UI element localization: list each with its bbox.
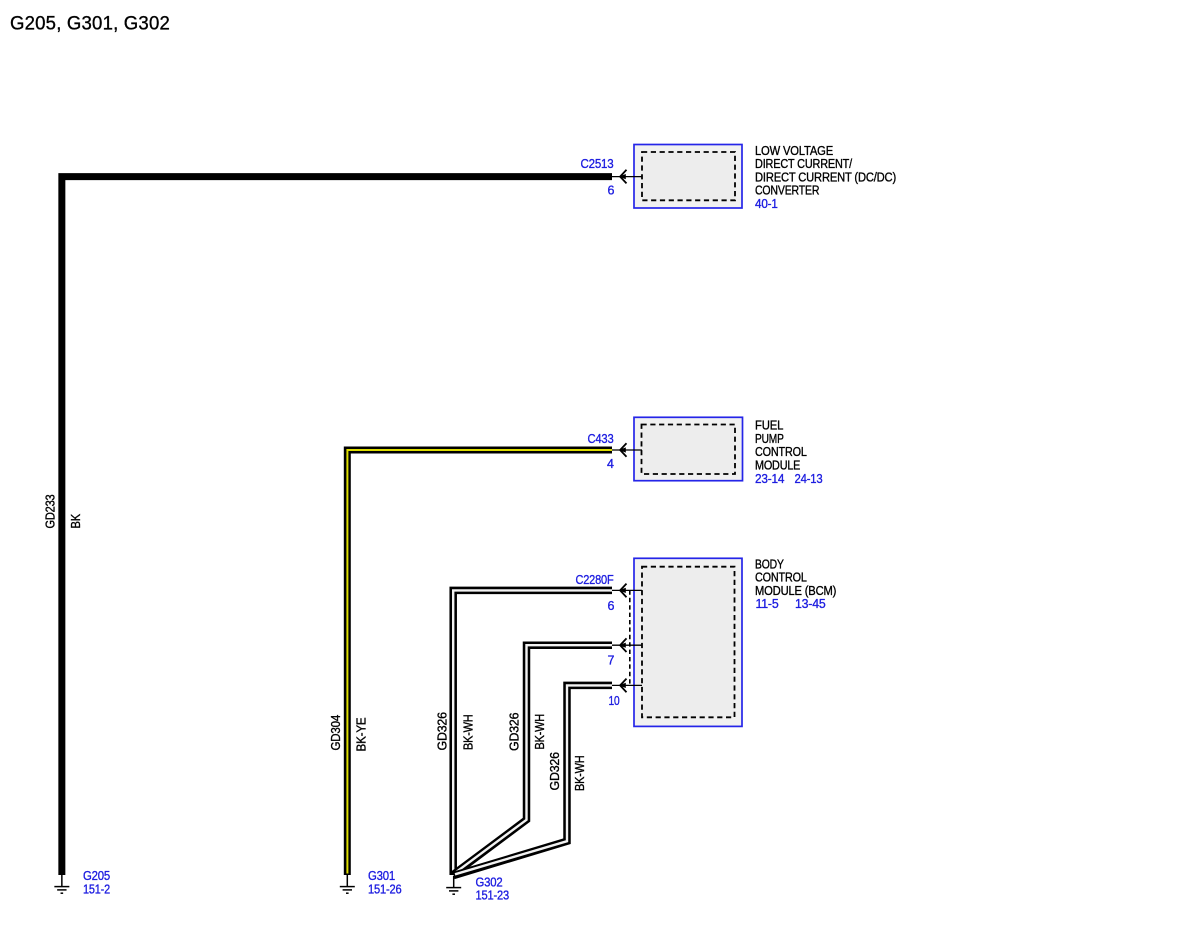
svg-text:G301: G301 [368, 869, 395, 883]
svg-text:11-5: 11-5 [756, 597, 779, 611]
wire GD326 BK-WH (BCM pin 10 to G302) [454, 685, 612, 875]
ground label G205 [83, 869, 110, 896]
module U3 label text [755, 557, 836, 611]
module U2: FUEL PUMP CONTROL MODULE box [634, 417, 743, 480]
svg-text:PUMP: PUMP [755, 432, 784, 446]
svg-text:13-45: 13-45 [795, 597, 826, 611]
svg-text:LOW VOLTAGE: LOW VOLTAGE [755, 144, 833, 158]
pin line C433-4 [612, 449, 642, 451]
svg-text:23-14: 23-14 [755, 472, 784, 486]
wire GD304 yellow stripe [347, 450, 612, 874]
svg-text:151-2: 151-2 [83, 882, 110, 896]
module U1: LOW VOLTAGE DC/DC CONVERTER box [634, 145, 742, 209]
svg-text:C2280F: C2280F [576, 573, 614, 587]
svg-text:MODULE (BCM): MODULE (BCM) [755, 584, 836, 598]
module U1 label text [755, 144, 896, 211]
arrow at C2513 pin 6 [619, 170, 627, 184]
pin line C2513-6 [612, 176, 642, 178]
svg-text:C433: C433 [588, 432, 614, 446]
svg-text:DIRECT CURRENT (DC/DC): DIRECT CURRENT (DC/DC) [755, 170, 896, 184]
svg-text:4: 4 [607, 457, 614, 471]
pin line C2280F-7 [612, 644, 642, 646]
wire GD326 BK-WH (BCM pin 7 to G302) [453, 645, 612, 874]
svg-text:BK-WH: BK-WH [573, 755, 587, 791]
svg-text:BK-YE: BK-YE [355, 718, 369, 752]
svg-text:151-23: 151-23 [476, 889, 510, 903]
svg-text:CONTROL: CONTROL [755, 445, 807, 459]
svg-text:CONTROL: CONTROL [755, 571, 807, 585]
ground G302 [446, 876, 461, 894]
svg-text:10: 10 [609, 694, 620, 708]
ground label G302 [476, 875, 510, 902]
pin line C2280F-10 [612, 684, 642, 686]
wire GD326 BK-WH (BCM pin 6 to G302) [453, 590, 612, 875]
svg-text:FUEL: FUEL [755, 419, 783, 433]
arrow at C2280F pin 10 [619, 679, 627, 693]
arrow at C2280F pin 6 [619, 584, 627, 598]
svg-text:BODY: BODY [755, 557, 784, 571]
svg-text:CONVERTER: CONVERTER [755, 184, 819, 198]
svg-text:GD326: GD326 [548, 752, 562, 791]
module U2 label text [755, 419, 823, 486]
module U3: BODY CONTROL MODULE (BCM) box [634, 558, 742, 726]
svg-text:6: 6 [608, 184, 615, 198]
svg-text:G302: G302 [476, 875, 503, 889]
svg-text:151-26: 151-26 [368, 882, 402, 896]
svg-text:40-1: 40-1 [755, 197, 778, 211]
wire GD233 BK (thick black, C2513 pin 6 to G205) [62, 177, 612, 875]
svg-text:G205, G301, G302: G205, G301, G302 [10, 13, 170, 35]
svg-text:6: 6 [608, 599, 615, 613]
arrow at C433 pin 4 [619, 443, 627, 457]
svg-text:7: 7 [608, 654, 615, 668]
svg-text:MODULE: MODULE [755, 459, 800, 473]
svg-text:GD304: GD304 [329, 715, 343, 751]
svg-text:GD326: GD326 [435, 712, 449, 751]
wire GD304 BK-YE (C433 pin 4 to G301) [347, 450, 612, 875]
arrow at C2280F pin 7 [619, 638, 627, 652]
svg-text:GD233: GD233 [44, 494, 58, 528]
svg-text:GD326: GD326 [508, 712, 522, 751]
svg-text:24-13: 24-13 [795, 472, 823, 486]
svg-text:C2513: C2513 [581, 157, 614, 171]
svg-text:BK: BK [69, 513, 83, 528]
svg-text:BK-WH: BK-WH [533, 714, 547, 750]
connector C2280F dashed bracket [629, 590, 631, 685]
svg-text:DIRECT CURRENT/: DIRECT CURRENT/ [755, 157, 853, 171]
svg-text:G205: G205 [83, 869, 110, 883]
ground G205 [54, 875, 69, 893]
ground label G301 [368, 869, 402, 896]
svg-text:BK-WH: BK-WH [461, 714, 475, 750]
ground G301 [340, 875, 355, 893]
pin line C2280F-6 [612, 589, 642, 591]
